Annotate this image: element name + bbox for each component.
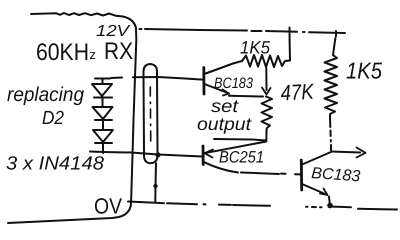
label BC251: [219, 149, 264, 167]
wire: diode top to box edge (dash): [111, 77, 122, 80]
junction blob on screen tail: [153, 184, 157, 188]
callout: set output: [197, 96, 252, 134]
diode D_c (1N4148): [93, 130, 113, 153]
svg-text:replacing: replacing: [7, 84, 84, 106]
current arrow into 47K top: [262, 68, 271, 95]
svg-text:3 x IN4148: 3 x IN4148: [6, 154, 104, 175]
junction dot cable/0V-feed wire: [155, 152, 160, 157]
resistor 1K5 right: [325, 31, 338, 150]
svg-text:D2: D2: [42, 108, 64, 129]
svg-text:set: set: [211, 96, 239, 116]
resistor 1K5 feedback: [242, 28, 290, 68]
svg-text:60KH: 60KH: [36, 39, 89, 66]
screened cable: [144, 64, 158, 202]
transistor Q3 BC183: [301, 152, 331, 206]
label 60KHz RX: [36, 38, 133, 66]
svg-text:1K5: 1K5: [240, 38, 271, 58]
svg-text:RX: RX: [104, 38, 133, 65]
label BC183 (Q3): [311, 165, 361, 185]
diode D_b (1N4148): [93, 107, 113, 130]
label 1K5 (feedback): [240, 38, 271, 58]
svg-text:output: output: [197, 114, 252, 134]
svg-text:OV: OV: [94, 194, 122, 219]
diode chain top lead: [95, 79, 110, 85]
junction dot Q3 emitter / 0V rail: [327, 203, 333, 209]
label 47K: [280, 79, 315, 106]
svg-text:BC251: BC251: [219, 149, 264, 167]
svg-text:z: z: [90, 47, 97, 62]
wire: Q2 collector to Q3 base: [241, 173, 301, 175]
label BC183 (Q1): [214, 75, 254, 92]
wire: RX 0V feed to Q2 base: [90, 152, 202, 157]
wire: 12V top rail: [140, 29, 346, 33]
label 0V: [94, 194, 122, 219]
transistor Q1 BC183: [204, 61, 263, 97]
callout underline to emitter node: [214, 131, 267, 141]
transistor Q2 BC251: [203, 142, 266, 173]
label 12V: [96, 23, 131, 40]
label 1K5 (right): [346, 58, 382, 84]
svg-text:BC183: BC183: [311, 165, 361, 185]
label 3 x IN4148: [6, 154, 104, 175]
label replacing D2: [7, 84, 84, 129]
diode D_a (1N4148): [92, 84, 112, 107]
wire: output arrow: [331, 148, 366, 158]
60KHz RX module box: [8, 13, 136, 223]
svg-text:1K5: 1K5: [346, 58, 382, 84]
resistor 47K: [262, 97, 273, 132]
svg-text:BC183: BC183: [214, 75, 254, 92]
svg-text:47K: 47K: [280, 79, 315, 106]
wire: RX signal out to Q1 base: [133, 77, 203, 80]
wire: 0V rail: [128, 202, 397, 210]
